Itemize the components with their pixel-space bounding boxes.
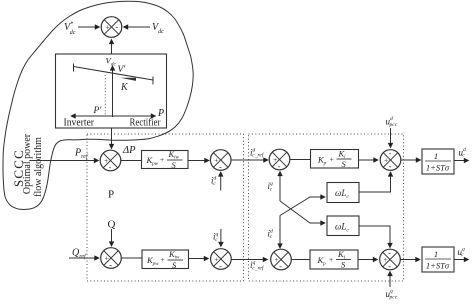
svg-text:+: + bbox=[160, 155, 164, 164]
wire PI2 to junction J4 bbox=[359, 159, 379, 161]
droop box: horizontal axis P bbox=[71, 115, 113, 117]
svg-text:idc: idc bbox=[211, 176, 217, 187]
wire J1 to PI box PI1 bbox=[121, 160, 142, 162]
svg-text:+: + bbox=[214, 156, 218, 165]
PI controller box PI4 (q current) bbox=[310, 249, 358, 270]
wire J5 to PI box PI3 bbox=[121, 257, 142, 259]
svg-text:+: + bbox=[273, 155, 277, 164]
svg-text:P′: P′ bbox=[93, 106, 103, 116]
svg-text:idc: idc bbox=[268, 229, 274, 240]
svg-text:-: - bbox=[279, 262, 282, 271]
wire lower wL output down into J8 bbox=[359, 226, 390, 248]
svg-text:+: + bbox=[329, 255, 333, 264]
svg-text:1+STσ: 1+STσ bbox=[426, 163, 450, 173]
PI controller box PI2 (d current) bbox=[311, 149, 359, 170]
summing junction J1 (P error) bbox=[100, 150, 121, 172]
wire J6 to junction J7 (crosses dashed boxes) bbox=[231, 259, 267, 261]
summing junction VJ (Vdc comparison) bbox=[101, 17, 122, 38]
svg-text:Inverter: Inverter bbox=[64, 118, 95, 129]
svg-text:iqc: iqc bbox=[213, 232, 219, 243]
transfer function box TF1 (1/(1+STs)) bbox=[422, 149, 454, 174]
summing junction J5 (Q error) bbox=[101, 248, 122, 270]
transfer function box TF2 (1/(1+STs)) bbox=[422, 247, 454, 272]
droop box: vertical axis Vdc bbox=[112, 66, 114, 117]
wire J7 to PI box PI4 bbox=[291, 259, 310, 261]
svg-text:flow algorithm: flow algorithm bbox=[33, 137, 44, 197]
svg-text:-: - bbox=[388, 249, 391, 258]
droop box: droop line bbox=[74, 67, 154, 81]
droop box: left end tick bbox=[73, 64, 75, 72]
hand-drawn enclosing blob around droop control section bbox=[3, 1, 193, 209]
svg-text:+: + bbox=[384, 255, 388, 264]
svg-text:+: + bbox=[214, 255, 218, 264]
svg-text:+: + bbox=[384, 156, 388, 165]
wire diagonal from icd node to upper wL box bbox=[280, 197, 325, 216]
wire icq up into J3 bbox=[279, 172, 281, 202]
wire J8 to transfer function box TF2 bbox=[400, 259, 420, 261]
svg-text:+: + bbox=[104, 156, 108, 165]
svg-text:+: + bbox=[105, 23, 109, 32]
wire Vdc from droop box up into VJ bbox=[111, 40, 113, 55]
svg-text:1: 1 bbox=[434, 151, 438, 161]
svg-text:-: - bbox=[219, 163, 222, 172]
wire J4 to transfer function box TF1 bbox=[401, 159, 421, 161]
wire icd down into J7 bbox=[279, 216, 281, 249]
svg-text:-: - bbox=[109, 163, 112, 172]
svg-text:Q: Q bbox=[108, 219, 116, 231]
svg-text:-: - bbox=[389, 162, 392, 171]
svg-text:-: - bbox=[389, 149, 392, 158]
svg-text:-: - bbox=[116, 23, 119, 32]
wire PI3 to junction J6 bbox=[189, 258, 209, 260]
wire icq down into J6 bbox=[220, 229, 222, 247]
wire Q down into J5 bbox=[111, 229, 113, 246]
inner dashed box (inner current control loop) bbox=[249, 134, 404, 281]
wire diagonal from icq node to lower wL box bbox=[280, 201, 325, 223]
wire Vdc into summing junction VJ (from right) bbox=[124, 26, 151, 28]
svg-text:+: + bbox=[161, 255, 165, 264]
summing junction J3 (d current error) bbox=[269, 149, 290, 171]
wire dP from droop box down into junction J1 bbox=[111, 128, 113, 149]
wire PI4 to junction J8 bbox=[358, 259, 378, 261]
svg-text:+: + bbox=[275, 255, 279, 264]
svg-text:-: - bbox=[219, 262, 222, 271]
svg-text:-: - bbox=[388, 262, 391, 271]
svg-text:P: P bbox=[108, 189, 114, 201]
summing junction J8 (q voltage) bbox=[380, 249, 401, 271]
wire uq_pcc up into J8 bbox=[389, 272, 391, 288]
droop characteristic box bbox=[56, 54, 167, 128]
svg-text:+: + bbox=[330, 155, 334, 164]
svg-text:K: K bbox=[120, 82, 129, 93]
wire J2 to junction J3 (crosses dashed boxes) bbox=[231, 159, 268, 161]
PI controller box PI3 (reactive power) bbox=[142, 249, 189, 270]
summing junction J4 (d voltage) bbox=[380, 149, 401, 171]
droop box: right end tick bbox=[152, 77, 154, 85]
svg-text:ΔP: ΔP bbox=[122, 145, 136, 156]
wire TF2 output ucq bbox=[454, 259, 469, 261]
wire TF1 output ucd bbox=[454, 160, 469, 162]
wire Pref into J1 bbox=[30, 160, 99, 162]
svg-text:V′: V′ bbox=[118, 65, 127, 75]
wire Vdc* into summing junction VJ bbox=[78, 26, 100, 28]
svg-text:Rectifier: Rectifier bbox=[130, 118, 162, 129]
wire upper wL output up into J4 bbox=[359, 172, 391, 192]
svg-text:iqc: iqc bbox=[268, 181, 274, 192]
summing junction J2 (current feedforward, d axis) bbox=[210, 150, 231, 172]
wire ud_pcc down into J4 bbox=[390, 128, 392, 148]
svg-text:+: + bbox=[105, 254, 109, 263]
PI controller box PI1 (active power) bbox=[142, 149, 189, 170]
svg-text:1: 1 bbox=[434, 249, 438, 259]
svg-text:-: - bbox=[278, 162, 281, 171]
svg-text:1+STσ: 1+STσ bbox=[426, 261, 450, 271]
wire Qref into J5 bbox=[69, 257, 99, 259]
svg-text:-: - bbox=[109, 261, 112, 270]
summing junction J6 (current feedforward, q axis) bbox=[211, 249, 232, 271]
wire PI1 to junction J2 bbox=[188, 160, 209, 162]
wL coupling box lower bbox=[327, 216, 359, 236]
wire J3 to PI box PI2 bbox=[290, 159, 311, 161]
wL coupling box upper bbox=[327, 183, 359, 203]
droop box: slope indicator triangle bbox=[121, 78, 137, 81]
summing junction J7 (q current error) bbox=[271, 249, 292, 271]
svg-text:Optimal power: Optimal power bbox=[22, 133, 33, 194]
wire icd up into J2 bbox=[220, 172, 222, 191]
outer dashed box (outer power/reactive control loop) bbox=[87, 134, 244, 281]
droop box: dotted operating point line bbox=[104, 75, 106, 116]
